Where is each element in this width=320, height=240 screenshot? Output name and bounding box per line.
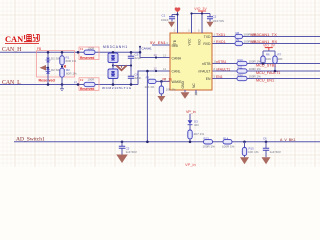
value C6 xyxy=(270,150,281,154)
net name CAN_L xyxy=(2,80,21,86)
junction before FB1 xyxy=(77,51,80,54)
series resistor R12 xyxy=(237,76,247,80)
junction C6 on rail xyxy=(265,141,268,144)
junction WAKE row xyxy=(160,80,163,83)
svg-text:C6: C6 xyxy=(263,136,267,140)
pin name VCC top xyxy=(188,38,192,46)
svg-text:1uF 50V: 1uF 50V xyxy=(270,150,281,154)
junction before FB2 xyxy=(77,83,80,86)
value R11 xyxy=(249,67,262,71)
value R7 xyxy=(278,57,283,61)
value FB1 xyxy=(88,47,95,51)
resistor R1 60R xyxy=(60,56,64,65)
svg-text:CANH1: CANH1 xyxy=(142,47,153,51)
wire R15 top lead xyxy=(244,142,246,148)
wire C6 top lead xyxy=(265,142,267,149)
junction on CANH pin wire xyxy=(155,56,157,58)
net label MCU_STB1 xyxy=(256,64,276,68)
svg-text:R11: R11 xyxy=(238,66,243,70)
net label A_V_BK1 xyxy=(280,138,296,142)
value C2 xyxy=(213,19,225,23)
designator R1 xyxy=(66,56,70,60)
junction cap midpoint xyxy=(130,64,132,66)
ferrite bead FB1 xyxy=(84,50,95,54)
net label nSTB1 xyxy=(216,60,226,64)
junction CANH jog xyxy=(139,51,142,54)
wire NC pin stub xyxy=(195,90,197,93)
wire stub below CAN_L xyxy=(61,85,63,89)
wire TVS column D1 D2 xyxy=(47,52,49,84)
designator R11 xyxy=(238,66,243,70)
pin number 5 top xyxy=(198,29,200,33)
ground arrow below C6 xyxy=(262,157,271,164)
designator D3 xyxy=(194,120,198,124)
junction cap top xyxy=(130,51,133,54)
title glyph xun xyxy=(33,34,40,42)
svg-text:100R: 100R xyxy=(88,47,95,51)
wire TXD row xyxy=(212,36,320,38)
wire cap C2 bottom lead xyxy=(209,19,211,22)
junction ESD bottom xyxy=(112,83,115,86)
ESD diode array U2 lower xyxy=(108,69,118,79)
pin number 12 violet xyxy=(154,67,158,71)
svg-text:CAN_L: CAN_L xyxy=(2,80,21,86)
svg-text:MB3CAN1_RX: MB3CAN1_RX xyxy=(251,39,278,44)
junction STB power xyxy=(176,13,178,15)
power port VIO_3V pullups xyxy=(263,43,276,50)
net label nFAULT1 xyxy=(216,67,230,71)
wire cap C2 top lead xyxy=(209,14,211,17)
value R15 xyxy=(248,150,259,154)
designator D2 xyxy=(51,68,66,72)
net label MB3CAN1_TX xyxy=(251,32,278,37)
pin number 1 xyxy=(214,33,216,37)
pin number 8 xyxy=(214,67,216,71)
capacitor C6 1uF xyxy=(263,148,269,150)
net name CAN_H xyxy=(2,47,22,53)
wire pullup horizontal xyxy=(263,50,275,52)
designator FB1 xyxy=(80,47,84,51)
svg-text:R12: R12 xyxy=(238,73,244,77)
designator C1 xyxy=(162,14,166,18)
value C3 xyxy=(135,56,142,60)
value C5 xyxy=(126,150,137,154)
net label MCU_EN1 xyxy=(256,79,274,83)
junction TVS midpoint xyxy=(47,67,49,69)
svg-text:10nF 50V: 10nF 50V xyxy=(213,19,225,23)
svg-text:GND: GND xyxy=(181,81,185,89)
svg-text:100R 1%: 100R 1% xyxy=(222,144,235,148)
TVS diode D1 xyxy=(46,58,51,63)
pin name STB top xyxy=(173,39,177,46)
wire ESD midpoint to cap midpoint xyxy=(113,65,131,67)
no-ERC marker at termination midpoint xyxy=(64,65,66,67)
svg-text:nFAULT1: nFAULT1 xyxy=(216,67,230,71)
svg-text:TXD1: TXD1 xyxy=(216,33,225,37)
designator R2 xyxy=(66,68,70,72)
wire pullup right lead xyxy=(274,51,276,56)
pin number 3 top xyxy=(188,29,190,33)
svg-text:VIO_3V: VIO_3V xyxy=(194,7,207,11)
series resistor R13 on rail xyxy=(204,140,213,144)
junction termination midpoint xyxy=(61,65,63,67)
wire STB row xyxy=(212,63,320,65)
svg-text:R9: R9 xyxy=(236,38,240,42)
svg-text:VIO: VIO xyxy=(198,39,202,45)
svg-text:MB3CAN1_TX: MB3CAN1_TX xyxy=(251,32,278,37)
title underline xyxy=(5,43,39,45)
ground arrow IC GND pin xyxy=(181,92,190,99)
resistor R2 60R xyxy=(60,68,64,77)
designator C2 xyxy=(213,15,217,19)
svg-text:FB: FB xyxy=(37,47,41,51)
wire diode to resistor xyxy=(189,125,191,130)
value D3 xyxy=(194,123,199,127)
wire cap C1 top lead xyxy=(171,15,173,17)
value C1 xyxy=(161,18,169,22)
svg-text:RXD: RXD xyxy=(203,42,211,46)
junction termination bottom xyxy=(61,83,64,86)
svg-text:10K: 10K xyxy=(266,57,271,61)
reserve text FB2 xyxy=(80,87,94,91)
junction VP chain on rail xyxy=(189,141,192,144)
wire CANL branch vertical to bottom rail xyxy=(146,71,148,142)
power port VIO_3V at IC xyxy=(194,7,207,14)
wire CAN_L horizontal xyxy=(0,84,138,86)
net label 5V_EN1 xyxy=(150,40,167,45)
designator R9 xyxy=(236,38,240,42)
svg-text:CANH: CANH xyxy=(172,57,182,61)
wire R4 to ground xyxy=(160,94,162,96)
net label MB3CANH1 xyxy=(103,45,128,49)
pin name nSTB xyxy=(202,62,211,66)
svg-text:R3: R3 xyxy=(146,75,150,79)
power port VP arrow xyxy=(175,7,181,12)
pin name CANH xyxy=(172,57,182,61)
svg-text:13: 13 xyxy=(154,53,158,57)
svg-text:5V_EN1: 5V_EN1 xyxy=(150,40,167,45)
pin name GND bottom xyxy=(181,81,185,89)
svg-text:NC: NC xyxy=(192,83,196,88)
value R4 xyxy=(166,88,176,92)
ESD diode array U2 upper xyxy=(108,53,118,63)
net label TXD1 xyxy=(216,33,225,37)
svg-text:RXD1: RXD1 xyxy=(216,40,226,44)
designator R13 xyxy=(204,136,210,140)
svg-text:10K: 10K xyxy=(278,57,283,61)
designator C6 xyxy=(263,136,267,140)
junction termination top xyxy=(61,51,64,54)
svg-text:1uF 50V: 1uF 50V xyxy=(126,150,137,154)
IC U1 CAN transceiver body xyxy=(170,33,212,90)
pin name VIO top xyxy=(198,39,202,45)
designator R14 xyxy=(223,136,229,140)
value R1 xyxy=(66,59,77,63)
value R13 xyxy=(203,144,216,148)
junction VIO top xyxy=(201,12,203,14)
pin name nFAULT xyxy=(198,69,210,73)
net label MB3CAN1_RX xyxy=(251,39,278,44)
svg-text:WCM2105LT1G: WCM2105LT1G xyxy=(102,86,132,90)
svg-text:10K 1%: 10K 1% xyxy=(145,85,155,89)
net label VP_in bottom xyxy=(185,162,196,167)
title glyph tong xyxy=(24,35,32,42)
wire R15 to ground xyxy=(244,156,246,158)
svg-text:F2: F2 xyxy=(80,78,84,82)
svg-text:nFAULT: nFAULT xyxy=(198,69,210,73)
svg-text:R10: R10 xyxy=(238,58,244,62)
designator R8 xyxy=(236,31,240,35)
capacitor C3 22pF xyxy=(128,56,134,58)
pin name EN right xyxy=(206,77,211,81)
wire CAN_H jog to CANH pin xyxy=(140,47,170,58)
value R2 xyxy=(66,72,77,76)
series resistor R11 xyxy=(237,69,247,73)
resistor R3 on WAKE row xyxy=(148,79,156,83)
junction ESD top xyxy=(112,51,115,54)
wire CAN_H horizontal xyxy=(0,51,140,53)
svg-text:MB3CANH1: MB3CANH1 xyxy=(103,45,128,49)
svg-text:Reserved: Reserved xyxy=(80,56,94,60)
wire C6 bottom lead xyxy=(265,150,267,157)
svg-text:MCU_EN1: MCU_EN1 xyxy=(256,79,274,83)
svg-text:Reserved: Reserved xyxy=(80,87,94,91)
designator C5 xyxy=(126,146,130,150)
wire CAN_L jog to CANL pin xyxy=(138,71,170,85)
pin number 5 xyxy=(214,75,216,79)
wire C5 top lead xyxy=(121,142,123,147)
svg-text:CAN: CAN xyxy=(5,35,23,44)
small ground at CAN_L stub xyxy=(60,89,64,91)
svg-text:22pF: 22pF xyxy=(135,56,142,60)
ground arrow below R15 xyxy=(240,157,249,164)
wire R7 to FAULT row xyxy=(274,64,276,72)
value R9 xyxy=(244,40,257,44)
designator R15 xyxy=(249,146,255,150)
wire VCC pin up xyxy=(191,14,193,34)
svg-text:100R: 100R xyxy=(88,78,95,82)
designator R12 xyxy=(238,73,244,77)
junction R7 on FAULT row xyxy=(274,70,277,73)
pin name NC bottom xyxy=(192,83,196,88)
ground arrow left at TVS midpoint xyxy=(40,65,47,71)
pin name TXD xyxy=(204,35,211,39)
wire EN row xyxy=(212,78,320,80)
svg-text:R8: R8 xyxy=(236,31,240,35)
svg-text:100nF: 100nF xyxy=(161,18,169,22)
wire cap column lower xyxy=(130,78,132,84)
title CAN communication xyxy=(5,35,23,44)
wire TVS midpoint stub xyxy=(46,67,48,69)
wire WAKE row xyxy=(147,80,170,82)
designator R6 xyxy=(266,53,270,57)
svg-text:F1: F1 xyxy=(80,47,84,51)
junction CANH stub top xyxy=(139,46,141,48)
designator D1 xyxy=(51,57,66,61)
svg-text:VP_in: VP_in xyxy=(186,110,196,114)
svg-text:TXD: TXD xyxy=(204,35,211,39)
junction C5 on rail xyxy=(121,141,124,144)
pin number 4 xyxy=(214,40,216,44)
pin number 9 xyxy=(165,77,167,81)
svg-text:VP_in: VP_in xyxy=(185,162,196,167)
svg-text:22pF: 22pF xyxy=(135,76,142,80)
wire pullup stem xyxy=(268,49,270,52)
wire RXD row xyxy=(212,43,320,45)
series resistor R10 xyxy=(237,61,247,65)
wire ESD column xyxy=(112,52,114,84)
red reserve box bead FB2 xyxy=(79,78,99,91)
junction branch on rail xyxy=(146,141,149,144)
net label AD_Switch1 xyxy=(16,137,45,143)
pin name CANL xyxy=(172,69,181,73)
wire VIO pin up xyxy=(201,14,203,34)
wire bottom rail AD_Switch1 xyxy=(14,141,320,143)
designator R7 xyxy=(278,53,282,57)
value R8 xyxy=(244,33,257,37)
value C4 xyxy=(135,76,142,80)
svg-text:CANL: CANL xyxy=(172,69,181,73)
ground arrow below R4 xyxy=(157,96,165,102)
junction R6 on STB row xyxy=(262,62,265,65)
ground arrow below C2 xyxy=(207,22,214,28)
value R12 xyxy=(249,75,262,79)
designator FB2 xyxy=(80,78,84,82)
designator R10 xyxy=(238,58,244,62)
svg-text:EN1: EN1 xyxy=(216,75,223,79)
resistor R4 pulldown xyxy=(159,86,163,94)
no-connect marker xyxy=(195,93,197,95)
svg-text:STB: STB xyxy=(173,39,177,46)
svg-text:40V: 40V xyxy=(194,123,199,127)
designator C4 xyxy=(135,73,139,77)
reserve text left box xyxy=(39,79,55,83)
net label MCU_FAULT1 xyxy=(256,71,280,75)
red reserve box around TVS and termination xyxy=(37,51,75,77)
pin name WAKE xyxy=(172,80,183,84)
reserve text FB1 xyxy=(80,56,94,60)
value R10 xyxy=(249,60,262,64)
designator FB2 outside xyxy=(74,81,78,85)
wire FAULT row xyxy=(212,70,320,72)
net label EN1 xyxy=(216,75,223,79)
svg-text:VP_1n: VP_1n xyxy=(162,77,172,81)
value R14 xyxy=(222,144,235,148)
svg-text:C1: C1 xyxy=(162,14,166,18)
wire cap column upper xyxy=(130,52,132,56)
pin number 13 violet xyxy=(154,53,158,57)
svg-text:13: 13 xyxy=(163,54,167,58)
svg-text:14: 14 xyxy=(163,67,167,71)
diode D3 xyxy=(188,120,193,124)
capacitor C4 22pF xyxy=(128,76,134,78)
capacitor C2 104 xyxy=(207,17,213,19)
wire WAKE pulldown xyxy=(160,81,162,86)
pin number 2 top xyxy=(174,29,176,33)
junction TVS top xyxy=(47,51,50,54)
designator C3 xyxy=(135,53,139,57)
pin number 6 xyxy=(167,41,169,45)
ferrite bead FB2 xyxy=(84,82,95,86)
signal ground wings xyxy=(116,65,126,70)
wire GND pin down xyxy=(184,90,186,92)
svg-text:C2: C2 xyxy=(213,15,217,19)
wire pullup left lead xyxy=(262,51,264,56)
part number ESD array xyxy=(102,86,132,90)
svg-text:nSTB1: nSTB1 xyxy=(216,60,226,64)
designator R3 xyxy=(146,75,150,79)
junction ESD midpoint xyxy=(112,64,114,66)
capacitor C5 1uF xyxy=(119,146,125,148)
svg-text:EN: EN xyxy=(206,77,211,81)
ground arrow below C1 xyxy=(168,22,175,28)
junction on CANL pin wire xyxy=(155,70,157,72)
wire to decoupling cap C1 xyxy=(172,14,178,16)
ground arrow below C5 xyxy=(116,155,128,164)
svg-text:100R 1%: 100R 1% xyxy=(203,144,216,148)
wire VP_in down to diode xyxy=(189,114,191,121)
resistor R6 pullup xyxy=(261,56,265,64)
net label RXD1 xyxy=(216,40,226,44)
junction CANL branch xyxy=(146,70,149,73)
wire R5 to rail xyxy=(189,139,191,142)
svg-text:10K 1%: 10K 1% xyxy=(166,88,176,92)
pin number 14 xyxy=(163,67,167,71)
pin name EN left xyxy=(172,44,178,48)
svg-text:60R 1%: 60R 1% xyxy=(66,72,77,76)
wire C5 bottom lead xyxy=(121,148,123,154)
value FB2 xyxy=(88,78,95,82)
red reserve box bead FB1 xyxy=(79,47,99,60)
resistor R15 pulldown xyxy=(242,148,246,156)
net label CANH1 xyxy=(142,47,153,51)
wire top power horizontal xyxy=(192,13,211,15)
svg-text:nSTB: nSTB xyxy=(202,62,211,66)
capacitor C1 104 xyxy=(169,17,175,19)
resistor R7 pullup xyxy=(273,56,277,64)
wire termination column R1 R2 xyxy=(61,52,63,84)
junction TVS bottom xyxy=(47,83,50,86)
svg-text:Reserved: Reserved xyxy=(39,79,55,83)
svg-text:R13: R13 xyxy=(204,136,210,140)
wire 5V_EN to pin xyxy=(152,44,170,46)
series resistor R14 on rail xyxy=(223,140,232,144)
resistor R5 xyxy=(188,130,192,139)
junction VCC top xyxy=(190,12,192,14)
wire cap column middle xyxy=(130,58,132,76)
reserve box tag xyxy=(37,47,41,51)
series resistor R8 xyxy=(235,34,243,38)
junction cap bottom xyxy=(130,83,133,86)
net label VP_in xyxy=(186,110,196,114)
pin number 11 xyxy=(214,60,217,64)
junction R15 on rail xyxy=(243,141,246,144)
value R5 xyxy=(194,132,205,136)
wire cap C1 bottom lead xyxy=(171,19,173,22)
pin number 13 xyxy=(163,54,167,58)
net label VP_1n xyxy=(162,77,172,81)
svg-text:VCC: VCC xyxy=(188,38,192,46)
svg-text:R14: R14 xyxy=(223,136,229,140)
svg-text:10K 1%: 10K 1% xyxy=(248,150,259,154)
wire STB pin to power xyxy=(177,12,179,33)
value R6 xyxy=(266,57,271,61)
value R3 xyxy=(145,85,155,89)
svg-text:60R 1%: 60R 1% xyxy=(66,59,77,63)
pin name RXD xyxy=(203,42,211,46)
TVS diode D2 xyxy=(46,69,51,74)
series resistor R9 xyxy=(235,41,243,45)
